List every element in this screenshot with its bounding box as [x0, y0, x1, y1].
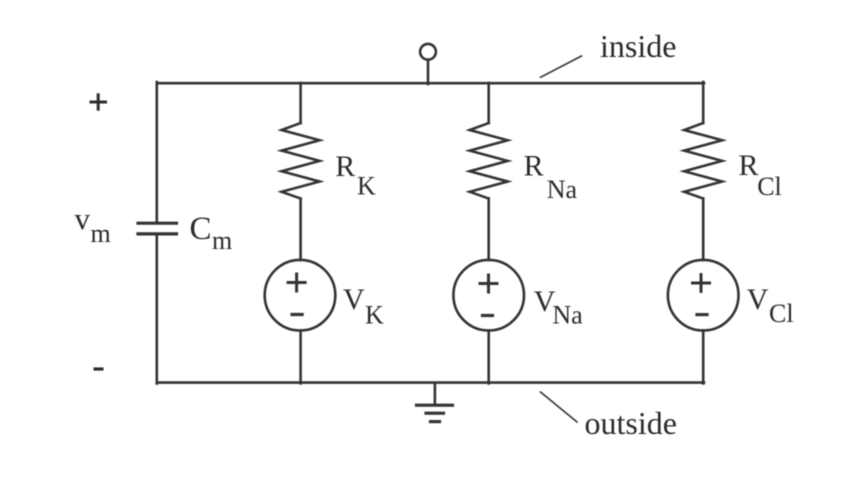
svg-text:Na: Na — [552, 301, 583, 330]
VNa minus sign — [483, 314, 493, 317]
svg-text:C: C — [190, 211, 212, 247]
voltage source VCl — [668, 260, 739, 331]
label plus (membrane polarity) — [90, 93, 108, 110]
terminal node (inside) — [420, 44, 436, 60]
callout line inside — [541, 56, 582, 77]
wire bottom rail (outside node) — [157, 381, 704, 384]
wire terminal stub — [427, 60, 430, 84]
VCl plus sign — [693, 275, 710, 292]
svg-text:inside: inside — [600, 28, 676, 64]
wire Cl branch top — [702, 82, 705, 123]
voltage source VK — [265, 260, 336, 331]
callout line outside — [541, 392, 578, 422]
VCl minus sign — [697, 313, 707, 316]
VK minus sign — [292, 313, 302, 316]
wire Cl branch bottom — [702, 331, 705, 384]
svg-text:V: V — [343, 283, 365, 316]
VNa plus sign — [480, 275, 497, 292]
wire Na branch middle — [487, 199, 490, 260]
VK plus sign — [288, 274, 305, 291]
svg-text:V: V — [747, 283, 769, 316]
svg-text:v: v — [75, 201, 91, 236]
resistor RNa — [470, 123, 508, 199]
svg-text:m: m — [91, 219, 111, 248]
svg-text:R: R — [335, 150, 355, 183]
wire K branch top — [299, 83, 302, 123]
svg-text:K: K — [357, 171, 376, 200]
wire Na branch top — [487, 83, 490, 123]
svg-text:R: R — [739, 149, 759, 182]
ground — [417, 383, 453, 422]
label minus (membrane polarity) — [94, 367, 104, 370]
voltage source VNa — [453, 260, 524, 331]
svg-text:Cl: Cl — [757, 172, 782, 201]
svg-text:outside: outside — [585, 405, 677, 441]
wire Na branch bottom — [487, 331, 490, 384]
svg-text:R: R — [524, 149, 544, 182]
wire top rail (inside node) — [157, 82, 704, 85]
resistor RCl — [684, 123, 722, 199]
wire K branch bottom — [299, 331, 302, 384]
resistor RK — [282, 123, 320, 199]
capacitor Cm — [138, 223, 177, 234]
wire Cl branch middle — [702, 199, 705, 260]
wire left branch upper — [156, 82, 159, 222]
wire K branch middle — [299, 199, 302, 260]
svg-text:Cl: Cl — [769, 299, 794, 328]
wire left branch lower — [156, 235, 159, 384]
svg-text:Na: Na — [547, 175, 578, 204]
svg-text:m: m — [212, 226, 232, 255]
svg-text:K: K — [365, 301, 384, 330]
